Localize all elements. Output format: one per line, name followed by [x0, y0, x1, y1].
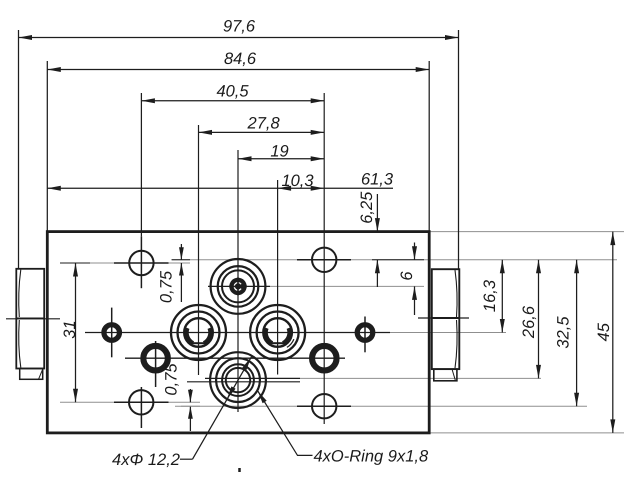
- left hex plug: [16, 269, 44, 380]
- extension line right hex outer: [458, 30, 460, 269]
- centerline bottom port upper: [205, 377, 300, 379]
- dimension 40,5: [141, 83, 324, 104]
- centerline small ring right vertical: [364, 317, 366, 353]
- dimension 16,3: [481, 260, 505, 333]
- extension line plate bottom edge to right dims: [429, 432, 624, 434]
- centerline bottom-right hole horizontal: [297, 405, 351, 407]
- svg-text:45: 45: [595, 322, 613, 341]
- dimension 6,25: [358, 191, 380, 287]
- port P top with concentric circles: [211, 259, 266, 314]
- small ring port right: [357, 325, 373, 341]
- port A left with concentric circles: [171, 305, 226, 360]
- svg-text:32,5: 32,5: [555, 316, 573, 349]
- centerline bottom-left hole vertical: [140, 387, 142, 428]
- centerline right hex: [418, 317, 469, 319]
- centerline top-left hole vertical: [140, 236, 142, 288]
- svg-text:4xO-Ring 9x1,8: 4xO-Ring 9x1,8: [314, 448, 429, 466]
- svg-text:97,6: 97,6: [223, 18, 256, 36]
- extension line bottom-right hole row: [175, 405, 587, 407]
- big ring port left: [143, 346, 168, 371]
- centerline big ring left vertical: [155, 341, 157, 387]
- centerline left hex: [6, 318, 60, 320]
- svg-text:4xΦ 12,2: 4xΦ 12,2: [112, 451, 180, 469]
- svg-text:26,6: 26,6: [520, 305, 538, 339]
- extension line plate top edge to right dims: [429, 231, 624, 233]
- svg-text:0,75: 0,75: [163, 363, 181, 396]
- extension line top port row: [270, 285, 424, 287]
- svg-text:84,6: 84,6: [224, 50, 257, 68]
- extension line top-left hole row: [68, 262, 190, 264]
- centerline bottom port lower: [187, 381, 300, 383]
- centerline bottom-left hole horizontal: [114, 401, 169, 403]
- svg-text:6,25: 6,25: [358, 191, 376, 224]
- dimension 26,6: [520, 260, 541, 379]
- extension line left hole column: [140, 93, 142, 236]
- centerline column left port: [198, 125, 200, 375]
- svg-text:6: 6: [398, 271, 416, 281]
- small ring port left: [104, 325, 120, 341]
- leader line 4x diameter 12,2: [180, 357, 252, 460]
- port T bottom with concentric circles: [210, 352, 266, 408]
- svg-text:16,3: 16,3: [481, 279, 499, 312]
- svg-text:0,75: 0,75: [158, 270, 176, 303]
- port B right with concentric circles: [250, 305, 305, 360]
- centerline small ring left vertical: [111, 308, 113, 358]
- centerline top port horizontal: [208, 285, 270, 287]
- centerline top-right hole horizontal: [297, 259, 351, 261]
- extension line bottom-left hole row: [60, 401, 200, 403]
- svg-text:40,5: 40,5: [216, 83, 249, 101]
- dimension 10,3 and 61,3: [47, 170, 394, 191]
- svg-text:61,3: 61,3: [361, 170, 394, 188]
- label 4x O-Ring 9x1,8: [314, 448, 429, 466]
- mounting hole bottom-right: [312, 394, 336, 418]
- partial mark at bottom edge: [238, 468, 241, 472]
- extension line bottom port upper row: [300, 377, 541, 379]
- label 4x diameter 12,2: [112, 451, 180, 469]
- dimension 31: [60, 263, 90, 402]
- centerline top-left hole horizontal: [114, 262, 169, 264]
- dimension 19: [238, 142, 324, 161]
- leader line 4x O-Ring: [258, 391, 313, 455]
- mounting hole bottom-left: [129, 390, 153, 414]
- dimension 0,75 bottom: [163, 363, 201, 431]
- big ring port right: [312, 346, 337, 371]
- centerline column center ports: [237, 150, 239, 412]
- dimension 6: [372, 243, 424, 316]
- svg-text:19: 19: [270, 142, 288, 160]
- svg-text:31: 31: [61, 320, 79, 338]
- svg-text:27,8: 27,8: [247, 114, 281, 132]
- centerline middle row: [85, 332, 390, 334]
- centerline column right port: [277, 180, 279, 375]
- extension line middle row: [390, 332, 506, 334]
- extension line right plate edge: [428, 61, 430, 232]
- extension line plate left edge: [46, 61, 48, 232]
- extension line top-right hole row: [172, 259, 617, 261]
- mounting hole top-left: [129, 251, 153, 275]
- centerline big-rings row: [125, 357, 345, 359]
- dimension 0,75 top: [158, 244, 191, 303]
- dimension 32,5: [555, 260, 580, 406]
- dimension 45: [595, 232, 615, 433]
- svg-text:10,3: 10,3: [281, 172, 314, 190]
- dimension 84,6: [47, 50, 429, 72]
- right hex plug: [432, 269, 460, 381]
- plate body outline: [47, 232, 429, 433]
- extension line left hex outer: [18, 30, 20, 269]
- dimension 97,6: [19, 18, 459, 41]
- dimension 27,8: [199, 114, 325, 135]
- centerline column right holes: [323, 93, 325, 424]
- mounting hole top-right: [312, 248, 336, 272]
